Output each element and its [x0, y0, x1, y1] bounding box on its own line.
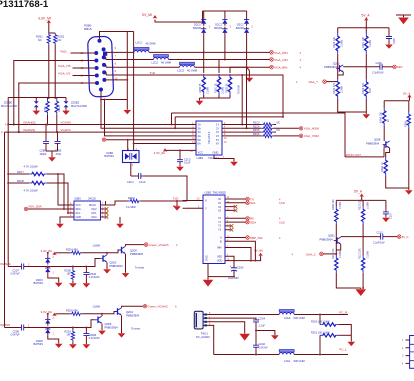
ground block A [363, 114, 371, 118]
svg-text:R2D5 45K: R2D5 45K [66, 309, 78, 313]
svg-text:TxD: TxD [173, 196, 179, 200]
wire inverter outputs to resistors [222, 125, 262, 136]
svg-text:R2C3: R2C3 [253, 122, 260, 125]
net VGA_VSM [299, 134, 319, 138]
resistor R2B2 75ohm terminator [226, 67, 247, 98]
svg-text:PMBS3904: PMBS3904 [130, 252, 144, 256]
ground Q2D0 [122, 273, 130, 277]
svg-text:R2B4: R2B4 [59, 106, 61, 112]
wire Q200 connections [338, 61, 378, 79]
capacitor C2B0 100pF [40, 124, 50, 156]
svg-text:P2G1: P2G1 [201, 331, 208, 335]
svg-text:NC: NC [38, 38, 42, 42]
svg-text:1/16W: 1/16W [340, 85, 343, 93]
svg-text:VCC: VCC [76, 204, 81, 207]
svg-text:ZD2B2: ZD2B2 [71, 101, 80, 105]
wire audio to cap [207, 317, 256, 319]
wire RxD input [183, 207, 204, 209]
power 3.3V_8A row1 [41, 249, 57, 255]
ground Q2D4 [118, 333, 126, 337]
svg-text:Q2D4: Q2D4 [126, 310, 133, 314]
wire Q2B1 connections [336, 237, 379, 256]
no-connect X2 X3 [225, 207, 235, 211]
svg-text:BAT54S: BAT54S [34, 281, 44, 285]
svg-text:VGA_RIN: VGA_RIN [274, 51, 288, 55]
wire row2 signal line [51, 320, 95, 328]
svg-text:INH: INH [217, 247, 222, 250]
svg-text:PC_R: PC_R [339, 310, 348, 314]
wire 5V rail to diodes [155, 11, 247, 22]
resistor R211 [332, 248, 361, 288]
resistor R2A5 [404, 112, 410, 188]
resistor R2D5 45K [56, 305, 118, 316]
svg-text:KBP_SW: KBP_SW [250, 236, 263, 240]
svg-text:2.2uF: 2.2uF [259, 325, 266, 328]
net VGA_SDA [24, 205, 64, 211]
svg-text:1M: 1M [67, 273, 70, 276]
svg-text:0.47uF/6V: 0.47uF/6V [89, 276, 100, 279]
svg-text:R2C8: R2C8 [17, 179, 24, 183]
svg-text:PMBS3904: PMBS3904 [320, 237, 334, 241]
wire U2B1 GND pin [214, 155, 234, 162]
transistor Q200 PMBS3904 [324, 61, 343, 72]
wire [49, 23, 55, 99]
svg-text:Q2D0: Q2D0 [130, 248, 137, 252]
resistor R2S1 NC [36, 33, 51, 45]
svg-text:U2B0: U2B0 [74, 197, 81, 201]
svg-text:R2B2 75: R2B2 75 [226, 83, 229, 93]
ground caps [46, 151, 58, 157]
resistor R2O1 [362, 33, 372, 67]
svg-text:VEE: VEE [217, 255, 222, 258]
ground R2H0 rail [176, 201, 178, 206]
svg-text:BAV99: BAV99 [193, 26, 201, 30]
svg-text:R2O1 10K: R2O1 10K [362, 36, 365, 48]
svg-text:5V_MI: 5V_MI [142, 13, 152, 17]
wire DB15 shield to ground [100, 32, 134, 151]
transistor Q2D6 PMBS3904 [95, 316, 118, 329]
svg-text:R2O2 47K: R2O2 47K [333, 82, 336, 94]
svg-text:1/16W: 1/16W [222, 86, 225, 94]
svg-text:R2S1: R2S1 [36, 35, 43, 39]
ground R2D1 [69, 344, 77, 348]
svg-text:U2B2: U2B2 [205, 191, 212, 195]
wire B INH VDD rails [225, 241, 261, 260]
transistor Q2D4 PMBS3904 [114, 308, 139, 318]
wire Q2D4 collector to net [122, 306, 144, 308]
no-connect Y2 Y3 [225, 226, 231, 230]
svg-text:VGAHS: VGAHS [0, 262, 11, 266]
svg-text:5Y: 5Y [216, 138, 219, 142]
ferrite bead L2C3 40 OHM [178, 62, 198, 72]
wire row1 signal line [51, 259, 100, 267]
svg-text:+: + [230, 264, 232, 268]
capacitor C213 output [373, 232, 397, 245]
wire crossover routing to resistor rows [242, 67, 246, 128]
ground block C [360, 288, 362, 289]
svg-text:0.047uF: 0.047uF [11, 273, 21, 276]
capacitor C2C0 0.1uF [177, 157, 191, 166]
power 5V_A block B [403, 92, 411, 98]
svg-text:SDA: SDA [250, 220, 256, 224]
svg-text:SAA_Y: SAA_Y [309, 80, 319, 84]
net IN_C [397, 235, 409, 239]
ferrite bead L2C2 40 OHM [152, 55, 172, 65]
wire audio left channel [207, 325, 279, 354]
power 3.3V_8A row2 [41, 310, 57, 316]
svg-text:47pF: 47pF [56, 153, 62, 156]
ground [196, 101, 204, 105]
connector P2B0 DB15 [81, 24, 118, 97]
wire pin13 VGA_HS [73, 67, 95, 69]
wire blue video line [106, 65, 270, 67]
svg-text:PMBS3904: PMBS3904 [110, 264, 124, 268]
svg-text:1/16W: 1/16W [206, 86, 209, 94]
capacitor C214 [382, 210, 393, 223]
svg-text:NC: NC [277, 129, 281, 132]
wire inverter 2A 4A feeds [101, 100, 191, 136]
svg-text:1/16W: 1/16W [93, 305, 101, 309]
ground D2D8 [55, 344, 63, 348]
svg-text:R2A4 10K: R2A4 10K [380, 112, 383, 123]
svg-text:PMBS3904: PMBS3904 [105, 326, 119, 330]
IC U2B0 24C02 [70, 197, 104, 220]
svg-text:BAT54S: BAT54S [34, 342, 44, 346]
svg-text:R211 47K: R211 47K [332, 248, 335, 259]
svg-text:4A: 4A [198, 134, 201, 138]
resistor R2B1 75ohm terminator [215, 60, 225, 99]
wire block C rail [336, 197, 386, 210]
ground D2D0 [55, 283, 63, 287]
svg-text:VGA_HSM: VGA_HSM [304, 127, 320, 131]
svg-text:GND: GND [213, 151, 219, 155]
svg-text:5A: 5A [198, 138, 201, 142]
svg-text:R2G0 100 1/16W: R2G0 100 1/16W [311, 321, 330, 324]
svg-text:NC: NC [58, 38, 62, 42]
svg-text:R2B3: R2B3 [44, 106, 46, 112]
dual diode D2C1 BAV99 [214, 18, 232, 60]
ground Q2D6 [98, 331, 106, 335]
ferrite bead L2C1 40 OHM [134, 41, 156, 53]
ground [230, 162, 238, 166]
svg-text:1/16W: 1/16W [340, 39, 343, 47]
ground R2D0 [69, 283, 77, 287]
resistor R2A4 [380, 108, 390, 141]
wire audio gnd [207, 322, 245, 334]
svg-text:VGA_HS: VGA_HS [58, 64, 71, 68]
svg-text:R2C5: R2C5 [253, 129, 260, 132]
wire VGAVS input row2 [5, 327, 20, 329]
svg-text:R2G1 100 1/16W: R2G1 100 1/16W [311, 331, 330, 334]
svg-text:SCL: SCL [76, 212, 81, 215]
svg-text:R2C6: R2C6 [253, 133, 260, 136]
wire block B rail [384, 98, 409, 113]
wire long mid bus A [172, 113, 346, 157]
resistor R2D0 1M [65, 266, 75, 284]
ground mid audio [271, 335, 279, 339]
capacitor C2D6 10uF/16V [228, 264, 244, 280]
transistor Q208 PMBS3904 [366, 138, 390, 148]
svg-text:1Y: 1Y [216, 123, 219, 127]
ground sync stub [247, 67, 250, 77]
transistor Q2D0 PMBS3904 [118, 247, 143, 257]
svg-text:2A: 2A [198, 126, 201, 130]
svg-text:2.2uF/16V: 2.2uF/16V [373, 241, 385, 244]
svg-text:R2B0 75: R2B0 75 [199, 83, 202, 93]
varistor ZD2B0 MULTILAYER [1, 98, 55, 115]
resistor R2G1 100 [311, 331, 351, 355]
svg-text:3.3V_8A: 3.3V_8A [154, 151, 166, 155]
svg-text:To tests: To tests [131, 327, 141, 331]
net VGA_RIN [270, 51, 302, 55]
svg-text:C2C1: C2C1 [127, 180, 134, 184]
capacitor C2C1 0.1uF [127, 173, 187, 201]
svg-text:PMBS3904: PMBS3904 [126, 314, 140, 318]
wire VGAVS line [5, 132, 192, 327]
svg-text:P1311768-1: P1311768-1 [0, 0, 49, 10]
wire VGAHS line [8, 98, 191, 267]
svg-text:TMC4052D: TMC4052D [213, 191, 227, 195]
svg-text:2.2uF/16V: 2.2uF/16V [372, 72, 384, 75]
ground C2D09 [83, 344, 91, 348]
power 3.3V_MI [38, 16, 51, 23]
svg-text:0.047uF: 0.047uF [11, 334, 21, 337]
svg-text:C213: C213 [377, 232, 384, 235]
resistor R209 [332, 199, 342, 237]
wire Q2D0 emitter [125, 254, 127, 273]
svg-text:NC: NC [277, 121, 281, 124]
svg-text:40 OHM: 40 OHM [187, 68, 198, 72]
wire VGAHS input row1 [8, 266, 19, 268]
wire block A rail [338, 20, 389, 34]
svg-text:C214: C214 [390, 213, 393, 219]
wire MONO OUT to base [345, 145, 384, 157]
IC U2B1 74LVC14 [190, 121, 227, 160]
resistor R2B3 [44, 98, 49, 125]
wire cap junction to ground [256, 331, 275, 336]
svg-text:0.1uF: 0.1uF [139, 180, 146, 184]
svg-text:VGA_BIN: VGA_BIN [274, 66, 287, 70]
svg-text:1A: 1A [198, 123, 201, 127]
svg-text:U2B1: U2B1 [197, 156, 204, 160]
ground C2D10 [83, 283, 91, 287]
ground U2B0 right [119, 217, 121, 224]
net SDA [225, 220, 285, 224]
svg-text:GND: GND [206, 255, 209, 261]
svg-text:SAA_C: SAA_C [306, 252, 317, 256]
ground U2B2 [207, 277, 209, 280]
net TX [225, 197, 281, 201]
svg-text:VGAH(S): VGAH(S) [23, 120, 36, 124]
svg-text:3.3V_8A: 3.3V_8A [41, 310, 53, 314]
svg-text:VGA_GIN: VGA_GIN [274, 58, 288, 62]
svg-text:MONO OUT: MONO OUT [345, 153, 362, 157]
svg-text:4.7K 1/16W: 4.7K 1/16W [24, 189, 39, 193]
capacitor C2G4 [253, 317, 266, 343]
net VGA_HSM [299, 127, 319, 131]
svg-text:D2D8: D2D8 [36, 339, 43, 343]
svg-text:1/16W: 1/16W [366, 250, 369, 258]
capacitor C206 output [372, 62, 393, 75]
ground top right corner [396, 15, 411, 17]
resistor R2C7 4.7K [7, 164, 64, 209]
svg-text:C204: C204 [393, 38, 396, 44]
ground [176, 167, 184, 171]
net SAA_Y [296, 80, 338, 84]
svg-text:6A: 6A [198, 142, 201, 146]
wire green video line [106, 57, 270, 59]
wire pin11 RxD [71, 52, 95, 54]
net KBP_SW [225, 236, 281, 240]
resistor R2B4 [55, 98, 61, 133]
capacitor C2D10 0.47uF [83, 266, 100, 284]
resistor R2H0 0ohm [106, 196, 188, 209]
net VGA_GIN [270, 58, 302, 62]
IC U2B2 TMC4052 [197, 191, 230, 264]
svg-text:BAV99: BAV99 [214, 26, 222, 30]
svg-text:PC_AUDIO: PC_AUDIO [196, 335, 210, 339]
net SCL [225, 201, 285, 205]
svg-text:0.1uF: 0.1uF [184, 162, 191, 165]
svg-text:PMBS3904: PMBS3904 [366, 141, 380, 145]
svg-text:100pF: 100pF [40, 153, 48, 156]
dual diode D2D8 BAT54S [34, 313, 59, 346]
svg-text:BAV99: BAV99 [236, 26, 244, 30]
svg-text:IN_C: IN_C [402, 235, 410, 239]
svg-text:4Y: 4Y [216, 134, 219, 138]
wire long mid bus B [175, 117, 283, 128]
svg-text:PMBS3904: PMBS3904 [324, 65, 338, 69]
wire Q2D4 emitter [121, 315, 123, 333]
svg-text:R2H0: R2H0 [128, 196, 135, 200]
svg-text:24C02: 24C02 [88, 197, 96, 201]
dual diode D2C0 BAV99 [193, 18, 211, 53]
svg-text:RxD: RxD [61, 49, 68, 53]
svg-text:40 OHM: 40 OHM [146, 42, 157, 46]
svg-text:R2C7: R2C7 [17, 170, 24, 174]
capacitor C2G0 0.047uF [253, 343, 268, 356]
svg-text:Q208: Q208 [374, 138, 381, 142]
power 5V_A top right [362, 13, 371, 20]
svg-text:5V_A: 5V_A [403, 92, 410, 96]
power 5V_8A [254, 249, 263, 256]
svg-text:R2A5: R2A5 [404, 120, 407, 127]
svg-text:3A: 3A [198, 130, 201, 134]
svg-text:X: X [205, 199, 207, 203]
svg-text:4.7K 1/16W: 4.7K 1/16W [24, 164, 39, 168]
svg-text:C2D6: C2D6 [237, 266, 244, 269]
resistor R2C5 [253, 129, 280, 134]
svg-text:KEY: KEY [397, 65, 403, 69]
svg-text:L2C3: L2C3 [178, 68, 185, 72]
svg-text:RxD: RxD [173, 204, 180, 208]
wire 5A input [106, 139, 191, 141]
svg-text:VCC: VCC [369, 88, 372, 93]
capacitor C204 [385, 34, 396, 49]
wire red video line [106, 51, 270, 53]
dual diode D2C2 BAV99 [236, 18, 254, 68]
svg-text:3Y: 3Y [216, 130, 219, 134]
wire pin15 to inverter 4A [19, 83, 95, 132]
transistor Q2D3 PMBS3904 [100, 255, 123, 268]
net Green_VGAVS 4 [144, 243, 178, 247]
svg-text:D2B4: D2B4 [107, 151, 114, 155]
svg-text:Q2B1: Q2B1 [328, 234, 335, 238]
resistor R212 [359, 248, 370, 288]
svg-text:TxD: TxD [150, 71, 156, 75]
svg-text:3,5,D: 3,5,D [279, 221, 285, 224]
ground U2B0 [56, 224, 64, 228]
wire TxD line [106, 72, 283, 117]
svg-text:Y: Y [205, 207, 207, 211]
svg-text:2Y: 2Y [216, 126, 219, 130]
resistor R2O2 [333, 79, 366, 112]
wire Q2D0 collector to net [126, 245, 145, 247]
svg-text:R2D4 45K: R2D4 45K [66, 248, 78, 252]
net KEY [393, 65, 403, 69]
svg-text:5V_A: 5V_A [354, 189, 363, 193]
capacitor C2D7 0.047uF [11, 264, 44, 276]
wire inverter input stubs [191, 125, 196, 144]
power 5V_MI [142, 13, 157, 19]
wire pin14 VGA_VS [73, 75, 95, 77]
wire Q2D3 collector emitter [106, 253, 108, 269]
svg-text:C2G4: C2G4 [259, 317, 266, 320]
ground block B [408, 188, 410, 190]
svg-text:GND: GND [76, 216, 82, 219]
svg-text:R2C4: R2C4 [253, 125, 260, 128]
resistor R2C3 [253, 121, 280, 126]
dual diode D2D0 BAT54S [34, 252, 59, 285]
svg-text:R210 22K: R210 22K [359, 199, 362, 210]
svg-text:Q2D3: Q2D3 [110, 261, 117, 265]
connector bottom right [402, 336, 414, 369]
svg-text:MULTILAYER: MULTILAYER [71, 104, 87, 108]
svg-text:L2G1: L2G1 [284, 359, 291, 363]
resistor R2C8 4.7K [7, 179, 68, 213]
wire VCC feed [166, 150, 196, 157]
svg-text:VGAHS: VGAHS [61, 120, 72, 124]
svg-text:PC_L: PC_L [339, 347, 347, 351]
no-connect pins U2B0 [101, 209, 106, 217]
varistor ZD2B2 MULTILAYER [55, 98, 87, 115]
svg-text:600 OHM: 600 OHM [294, 316, 305, 320]
svg-text:1/16W: 1/16W [339, 201, 342, 209]
svg-text:NC0: NC0 [92, 216, 98, 219]
svg-text:3.3V_8A: 3.3V_8A [41, 249, 53, 253]
ground jack [239, 334, 250, 341]
svg-text:VGA_VSM: VGA_VSM [304, 134, 319, 138]
svg-text:L2C2: L2C2 [152, 61, 159, 65]
svg-text:MCLK: MCLK [89, 204, 96, 207]
svg-text:3.3V_MI: 3.3V_MI [38, 16, 51, 20]
ground Q2D3 [103, 269, 111, 273]
wire TxD input [183, 200, 204, 202]
svg-text:1M: 1M [67, 334, 70, 337]
svg-text:0 1/16W: 0 1/16W [126, 205, 136, 209]
net VGA_BIN [270, 65, 302, 69]
svg-text:0.47uF/6V: 0.47uF/6V [89, 337, 100, 340]
svg-text:D2D0: D2D0 [36, 278, 43, 282]
power 5V_A block C [354, 189, 364, 196]
resistor R2G0 100 [311, 314, 351, 336]
svg-text:R2B1 75: R2B1 75 [215, 83, 218, 93]
resistor R2S2 NC [54, 33, 65, 45]
wire pin10 to shield [106, 79, 127, 81]
svg-text:VGA_VS: VGA_VS [58, 72, 70, 76]
resistor R2B0 75ohm terminator [199, 52, 209, 98]
resistor R2C4 [253, 125, 299, 130]
